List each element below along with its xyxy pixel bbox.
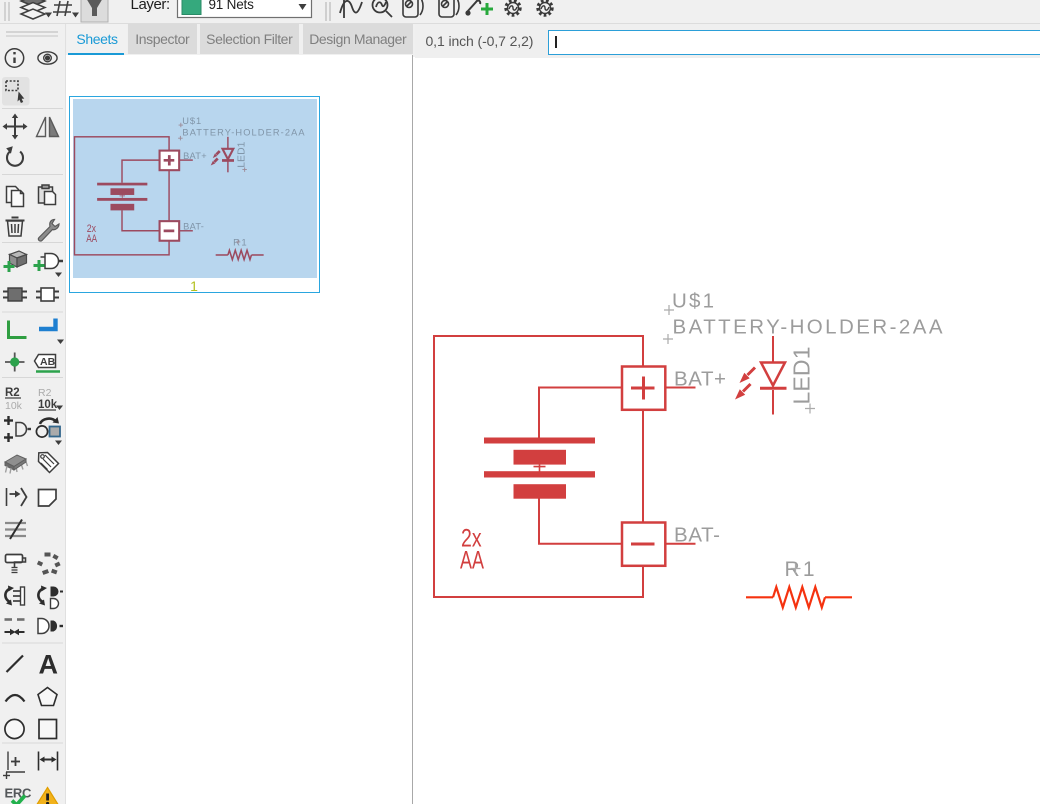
show/eye tool	[38, 52, 57, 64]
swaplevel tool	[5, 586, 24, 606]
svg-text:10k: 10k	[5, 400, 23, 412]
svg-text:BATTERY-HOLDER-2AA: BATTERY-HOLDER-2AA	[673, 316, 943, 339]
origin cross U$1	[664, 305, 674, 315]
junction tool	[5, 353, 25, 372]
battery plate long top	[484, 438, 595, 444]
cathode lead	[772, 390, 774, 415]
tab/status row	[0, 24, 1040, 57]
plus symbol	[631, 377, 655, 400]
group/select tool (pressed)	[2, 77, 30, 106]
grip lines	[6, 31, 58, 33]
layers icon (cut off at top)	[21, 0, 45, 19]
svg-text:10k: 10k	[38, 399, 58, 411]
bus tool (blue)	[39, 319, 56, 330]
replace (filled) tool	[3, 288, 27, 301]
svg-text:R2: R2	[38, 387, 52, 399]
package/chip tool	[5, 455, 28, 474]
grid/coordinate readout	[426, 33, 534, 49]
LED light arrow 2	[743, 384, 751, 392]
pin stub BAT-	[665, 543, 696, 545]
zoom waveform icon	[373, 0, 393, 17]
bus ripup tool	[5, 523, 26, 536]
left toolbar sidebar	[0, 24, 66, 804]
right lead	[825, 596, 852, 598]
origin cross value	[663, 334, 673, 344]
sheet number 1	[186, 278, 202, 294]
pin stub BAT+	[665, 387, 696, 389]
origin cross LED1	[805, 404, 815, 414]
svg-text:R2: R2	[5, 387, 20, 399]
left lead	[746, 596, 773, 598]
measure tool	[39, 752, 58, 771]
multimeter icon 2	[439, 0, 459, 17]
circle tool	[5, 719, 24, 738]
svg-text:AB: AB	[40, 356, 56, 368]
label tool	[35, 355, 61, 372]
move tool	[3, 114, 28, 140]
probe + icon	[466, 1, 480, 15]
gear icon 1	[506, 1, 520, 15]
group separators	[2, 109, 63, 744]
gear icon 2	[538, 1, 552, 15]
cathode bar	[760, 387, 787, 390]
svg-text:91 Nets: 91 Nets	[209, 0, 255, 12]
origin cross R1	[791, 564, 801, 574]
delete/trash tool	[6, 218, 25, 237]
name tool	[5, 387, 23, 412]
erc tool	[5, 786, 32, 806]
wire battery bottom to BAT-	[539, 499, 622, 544]
sheets panel	[66, 55, 413, 804]
gateswap tool	[4, 416, 31, 442]
schematic canvas	[418, 58, 1040, 804]
top toolbar	[0, 0, 1040, 24]
pinswap tool	[36, 417, 62, 445]
swap gates tool	[38, 586, 63, 609]
svg-text:ERC: ERC	[5, 786, 32, 801]
join tool	[38, 619, 63, 634]
value tool	[38, 387, 63, 411]
split tool	[5, 618, 25, 621]
battery plate long bottom	[484, 471, 595, 477]
paint/change tool	[6, 555, 26, 573]
canvas top bar	[415, 24, 1040, 58]
terminal box BAT+	[622, 367, 665, 410]
svg-text:R1: R1	[785, 558, 815, 581]
invoke tool	[7, 488, 27, 506]
mirror tool	[37, 117, 59, 137]
grip	[4, 2, 6, 21]
command line input	[548, 30, 1040, 55]
rotate tool	[6, 146, 23, 166]
sheet 1 thumbnail	[73, 99, 317, 278]
battery plate short thick bottom	[514, 484, 567, 499]
terminal box BAT-	[622, 523, 665, 566]
sim waveform icon	[340, 0, 362, 18]
line tool	[7, 656, 24, 673]
smash tool	[37, 553, 61, 575]
svg-text:AA: AA	[460, 546, 484, 575]
rect tool	[39, 720, 57, 739]
paste tool	[39, 185, 56, 205]
replace (outline) tool	[36, 288, 59, 301]
copy tool	[7, 187, 24, 207]
arc tool	[6, 695, 25, 702]
LED light arrow 1	[748, 368, 756, 376]
add part tool	[4, 251, 27, 272]
net tool (green)	[9, 321, 27, 338]
add gate tool	[34, 254, 64, 278]
svg-text:LED1: LED1	[789, 347, 815, 405]
wrench tool	[38, 220, 59, 242]
svg-text:Layer:: Layer:	[131, 0, 170, 13]
svg-text:U$1: U$1	[672, 290, 714, 313]
text caret	[555, 36, 557, 48]
separator	[325, 2, 327, 21]
svg-text:BAT-: BAT-	[674, 524, 720, 547]
holder outline	[434, 336, 643, 597]
layer dropdown	[178, 0, 312, 18]
battery origin cross	[534, 461, 546, 472]
grid icon	[53, 1, 72, 16]
attribute/tag tool	[39, 453, 59, 473]
funnel filter icon pressed	[81, 0, 108, 22]
svg-text:BAT+: BAT+	[674, 368, 726, 391]
dimension tool	[3, 752, 25, 780]
zigzag	[773, 587, 825, 608]
minus symbol	[631, 543, 655, 546]
info tool	[5, 49, 23, 67]
polygon tool	[38, 688, 57, 706]
battery plate short thick top	[514, 450, 567, 465]
sheet 1 thumbnail frame	[69, 96, 320, 293]
wire battery top to BAT+	[539, 388, 622, 438]
miter tool	[39, 490, 57, 507]
multimeter icon 1	[403, 0, 423, 17]
anode lead	[772, 336, 774, 362]
svg-text:A: A	[39, 650, 59, 680]
LED triangle	[761, 363, 785, 386]
errors tool	[36, 788, 59, 807]
